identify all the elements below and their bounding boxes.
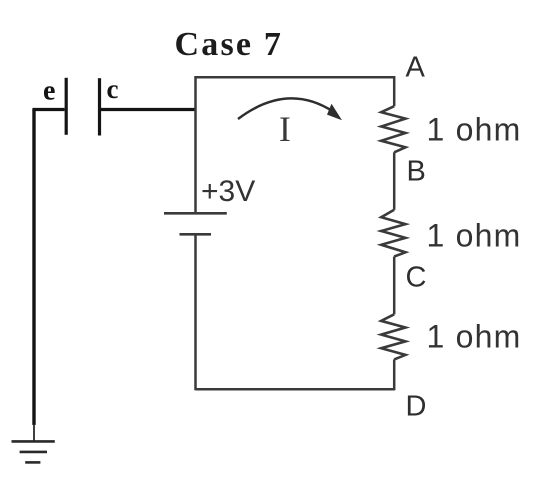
- svg-text:1 ohm: 1 ohm: [427, 112, 522, 148]
- current arrow arc: [238, 98, 342, 120]
- value label 1 ohm (R3): [427, 319, 522, 355]
- value label 1 ohm (R2): [427, 217, 522, 253]
- svg-text:+3V: +3V: [201, 175, 255, 208]
- wire: left rail lower (battery - to bottom wire): [194, 234, 197, 390]
- resistor R3 (1 ohm) zigzag: [381, 314, 405, 359]
- label c: [107, 74, 119, 104]
- svg-text:D: D: [406, 391, 427, 423]
- wire: right rail node A to R1: [393, 76, 396, 106]
- svg-text:1 ohm: 1 ohm: [427, 217, 522, 253]
- battery V1 +3V: long positive plate: [164, 212, 227, 215]
- svg-text:1 ohm: 1 ohm: [427, 319, 522, 355]
- svg-text:I: I: [279, 109, 291, 149]
- svg-text:e: e: [43, 76, 55, 107]
- wire: bottom wire of loop: [196, 388, 395, 391]
- svg-text:A: A: [406, 52, 426, 84]
- node A label: [406, 52, 426, 84]
- battery value label +3V: [201, 175, 255, 208]
- wire: right rail R3 to node D: [393, 359, 396, 390]
- label e: [43, 76, 55, 107]
- node B label: [407, 156, 426, 188]
- wire: top wire of loop: [196, 76, 395, 79]
- svg-text:B: B: [407, 156, 426, 188]
- svg-text:Case 7: Case 7: [175, 26, 284, 63]
- current label I: [279, 109, 291, 149]
- battery V1: short negative plate: [180, 233, 212, 236]
- wire: left rail upper (node to battery +): [194, 76, 197, 213]
- resistor R1 (1 ohm) zigzag: [381, 106, 405, 152]
- contact plate e: [65, 78, 68, 135]
- node C label: [406, 261, 427, 293]
- node D label: [406, 391, 427, 423]
- wire: horizontal from left wire to plate e: [32, 108, 64, 111]
- wire: horizontal from plate c to left rail of loop: [101, 108, 197, 111]
- value label 1 ohm (R1): [427, 112, 522, 148]
- wire: left vertical wire from contact down to ground: [32, 110, 35, 441]
- ground: [12, 441, 55, 462]
- resistor R2 (1 ohm) zigzag: [381, 210, 405, 257]
- svg-text:C: C: [406, 261, 427, 293]
- wire: right rail R2 to R3: [393, 257, 396, 315]
- svg-text:c: c: [107, 74, 119, 104]
- wire: right rail R1 to R2: [393, 152, 396, 210]
- contact plate c: [98, 78, 101, 135]
- title Case 7: [175, 26, 284, 63]
